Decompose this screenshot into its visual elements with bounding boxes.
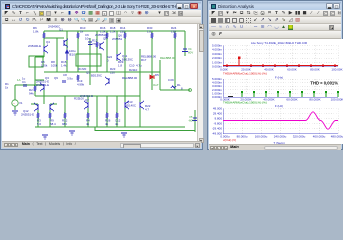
svg-text:Q5: Q5 [86,71,90,75]
svg-text:Q6: Q6 [118,34,122,38]
svg-text:94k: 94k [29,92,34,96]
svg-text:0: 0 [107,59,109,63]
svg-text:400.000u: 400.000u [313,135,326,139]
svg-text:2N5401-E: 2N5401-E [36,83,49,87]
svg-text:10u: 10u [85,37,90,41]
svg-text:-29.400: -29.400 [212,127,223,131]
svg-text:RELBB8.00: RELBB8.00 [122,76,137,80]
svg-text:1k: 1k [5,86,9,90]
svg-text:Q9: Q9 [54,76,58,80]
svg-text:105k: 105k [41,64,48,68]
svg-text:2N5400-E: 2N5400-E [28,44,41,48]
svg-text:~: ~ [13,102,15,106]
svg-text:C1: C1 [22,80,26,84]
svg-text:BD139C: BD139C [122,58,133,62]
svg-text:100.00K: 100.00K [331,68,342,72]
svg-text:D5: D5 [155,73,159,77]
svg-text:130: 130 [171,30,176,34]
svg-text:29.400: 29.400 [213,112,223,116]
svg-text:v(Out) (V): v(Out) (V) [223,138,236,142]
svg-text:1.4k: 1.4k [61,64,67,68]
svg-text:C10: C10 [129,64,135,68]
svg-text:THD = 0,001%: THD = 0,001% [310,81,338,86]
svg-text:V1: V1 [19,101,23,105]
svg-text:1.2k: 1.2k [110,30,116,34]
svg-text:27k: 27k [92,42,97,46]
svg-text:1.8: 1.8 [118,64,122,68]
svg-text:3.9u: 3.9u [67,77,73,81]
svg-text:THD(HARM(v(Out),1000),%) (%): THD(HARM(v(Out),1000),%) (%) [223,72,267,76]
svg-text:4n: 4n [115,122,119,126]
svg-text:68.4: 68.4 [50,122,56,126]
svg-text:5.6: 5.6 [37,122,41,126]
svg-text:80.00K: 80.00K [310,68,320,72]
svg-text:4k: 4k [105,122,109,126]
svg-text:60.000K: 60.000K [286,98,297,102]
svg-text:0.09: 0.09 [168,78,174,82]
svg-text:320.000u: 320.000u [293,135,306,139]
svg-text:Q1: Q1 [59,28,63,32]
svg-text:10: 10 [134,68,138,72]
svg-text:Q7: Q7 [85,98,89,102]
svg-text:Lite Sony T4-F02E_20Hz-50kHz T: Lite Sony T4-F02E_20Hz-50kHz THD.CIR [251,41,308,45]
svg-text:49.000: 49.000 [213,107,223,111]
svg-text:100.000K: 100.000K [331,98,343,102]
svg-text:60.00K: 60.00K [287,68,297,72]
svg-text:160.000u: 160.000u [255,135,268,139]
svg-text:480.000u: 480.000u [331,135,343,139]
svg-text:4.7u: 4.7u [136,64,142,68]
svg-text:984: 984 [62,122,67,126]
svg-text:-60V: -60V [188,119,194,123]
svg-text:4.99k: 4.99k [77,83,85,87]
svg-text:1.8: 1.8 [147,30,151,34]
svg-text:80.000K: 80.000K [309,98,320,102]
svg-text:1u: 1u [22,77,26,81]
svg-text:OuT: OuT [153,83,159,87]
svg-text:1A: 1A [17,78,21,82]
svg-text:220: 220 [110,71,115,75]
svg-text:1k: 1k [80,30,84,34]
svg-text:RELBB8.00: RELBB8.00 [160,56,175,60]
svg-text:220: 220 [120,30,125,34]
svg-text:4k: 4k [86,122,90,126]
svg-text:BD140C: BD140C [125,104,136,108]
svg-text:BD139C: BD139C [91,74,102,78]
svg-text:2N5551: 2N5551 [112,37,123,41]
svg-text:60V: 60V [188,51,193,55]
svg-text:-9.800: -9.800 [213,122,222,126]
svg-text:IE10: IE10 [69,53,75,57]
svg-text:Q4: Q4 [46,40,50,44]
svg-text:R17: R17 [141,58,147,62]
svg-text:F (Hz): F (Hz) [275,104,283,108]
svg-text:105k: 105k [51,64,58,68]
svg-text:THD(HARM(v(Out),1000),%) (%): THD(HARM(v(Out),1000),%) (%) [223,101,267,105]
svg-text:240.000u: 240.000u [274,135,287,139]
svg-text:1.8k: 1.8k [33,30,39,34]
svg-text:Q8: Q8 [103,37,107,41]
svg-text:9.800: 9.800 [214,117,222,121]
svg-text:4.7: 4.7 [145,108,149,112]
svg-text:80.000u: 80.000u [237,135,248,139]
svg-text:2N5401-E: 2N5401-E [80,94,93,98]
svg-text:2N5551-E: 2N5551-E [21,113,34,117]
